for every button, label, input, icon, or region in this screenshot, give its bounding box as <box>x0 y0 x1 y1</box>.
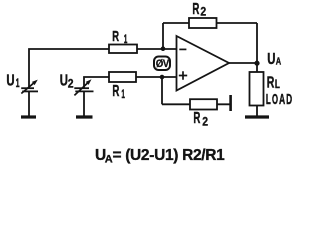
resistor R1 (bottom, input from U2) <box>109 72 136 82</box>
svg-text:ØV: ØV <box>156 58 170 70</box>
svg-text:R: R <box>267 74 275 91</box>
node dot at output junction <box>254 61 259 66</box>
svg-text:U: U <box>6 72 14 89</box>
svg-text:A: A <box>279 91 285 108</box>
svg-text:1: 1 <box>16 76 20 90</box>
wire top feedback run <box>163 22 257 24</box>
svg-text:R: R <box>193 110 200 127</box>
wire U2 bottom to ground <box>83 91 85 116</box>
svg-text:O: O <box>272 91 278 108</box>
wire plus node down <box>161 77 163 104</box>
wire feedback node vertical <box>162 23 164 49</box>
resistor R1 (top, input from U1) <box>109 45 137 54</box>
resistor R2 (top feedback) <box>189 18 217 28</box>
resistor R2 (bottom, plus input to ground) <box>190 99 217 109</box>
node dot at non-inverting input junction <box>160 75 165 80</box>
wire output right vertical <box>256 23 258 72</box>
ground U1 <box>21 115 36 118</box>
wire U2 to non-inverting input <box>84 77 177 88</box>
svg-text:1: 1 <box>121 87 125 101</box>
ground U2 <box>76 115 93 118</box>
svg-text:2: 2 <box>68 77 74 91</box>
svg-text:R: R <box>112 83 119 100</box>
svg-text:D: D <box>286 91 292 108</box>
source U2 variable arrow <box>74 83 87 96</box>
svg-text:L: L <box>266 91 271 108</box>
svg-text:U: U <box>60 72 68 89</box>
svg-text:1: 1 <box>124 34 128 46</box>
svg-text:= (U2-U1) R2/R1: = (U2-U1) R2/R1 <box>113 147 226 164</box>
wire U1 bottom to ground <box>28 91 30 116</box>
svg-text:R: R <box>112 28 119 45</box>
ground RL <box>245 115 269 118</box>
op-amp minus input sign <box>179 48 186 50</box>
source U1 plates <box>21 87 34 89</box>
svg-text:A: A <box>276 57 281 68</box>
source U2 plates <box>74 87 89 89</box>
svg-text:2: 2 <box>202 115 208 129</box>
wire RL bottom to ground <box>256 106 258 117</box>
resistor RL load <box>250 72 264 106</box>
op-amp U1 triangle <box>177 36 230 91</box>
op-amp plus input sign <box>179 71 187 79</box>
wire op-amp output <box>229 62 257 64</box>
0V badge <box>154 57 170 71</box>
svg-text:U: U <box>267 51 275 68</box>
wire bottom R2 run <box>162 103 230 105</box>
svg-text:2: 2 <box>200 4 206 18</box>
svg-text:L: L <box>275 79 280 91</box>
svg-text:R: R <box>192 1 199 18</box>
ground bar at bottom R2 <box>229 95 232 111</box>
wire U1 top to inverting input <box>29 49 177 88</box>
node dot at inverting input junction <box>161 46 166 51</box>
source U1 variable arrow <box>21 83 34 94</box>
